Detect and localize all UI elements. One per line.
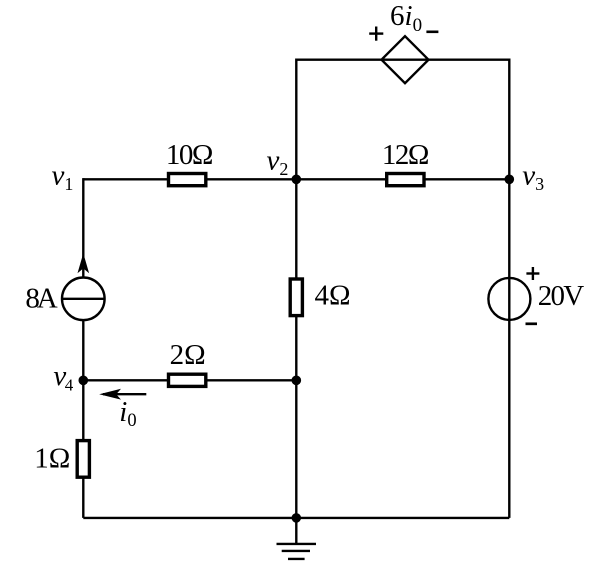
wire left vertical v1 to bottom xyxy=(82,178,84,518)
resistor 1ohm box xyxy=(77,441,89,478)
wire bottom horizontal (83,518)-(509,518) xyxy=(83,517,509,519)
dependent source diamond 6i0 xyxy=(382,36,429,83)
minus sign of dependent source xyxy=(426,30,438,33)
wire right vertical lower (509,179)-(509,518) xyxy=(508,179,510,518)
node v2 dot xyxy=(292,175,302,185)
wire right vertical upper (509,60)-(509,179) xyxy=(508,59,510,180)
current source 8A chord xyxy=(62,298,105,300)
voltage source 20V circle xyxy=(488,278,530,320)
node v4 dot xyxy=(79,376,89,386)
node mid-bottom of 2ohm branch dot xyxy=(292,376,302,386)
resistor 2ohm box xyxy=(169,374,206,386)
svg-text:8A: 8A xyxy=(25,282,57,314)
plus sign of 20V source xyxy=(526,267,539,280)
wire top horizontal (296,60)-(509,60) through dependent source xyxy=(296,59,509,61)
svg-text:20V: 20V xyxy=(538,280,584,312)
wire v4 horizontal (83,380)-(296,380) xyxy=(83,379,296,381)
plus sign of dependent source xyxy=(369,27,383,41)
node v3 dot xyxy=(505,175,515,185)
svg-text:10Ω: 10Ω xyxy=(166,139,213,171)
node ground junction dot xyxy=(292,513,302,523)
ground symbol xyxy=(277,518,317,559)
svg-text:4Ω: 4Ω xyxy=(315,280,351,312)
svg-text:12Ω: 12Ω xyxy=(382,139,429,171)
wire main horizontal v1-v2-v3 xyxy=(83,178,509,180)
current source 8A circle xyxy=(62,278,105,321)
svg-text:2Ω: 2Ω xyxy=(170,339,206,371)
wire middle vertical lower (296,179)-(296,518) xyxy=(295,179,297,518)
i0 current arrow xyxy=(103,393,146,395)
resistor 4ohm box xyxy=(290,279,302,316)
current source 8A arrowhead xyxy=(78,253,90,273)
resistor 12ohm box xyxy=(387,174,424,186)
minus sign of 20V source xyxy=(526,322,538,325)
svg-text:1Ω: 1Ω xyxy=(34,442,70,474)
resistor 10ohm box xyxy=(169,174,206,186)
wire middle vertical upper (296,60)-(296,179) xyxy=(295,59,297,180)
